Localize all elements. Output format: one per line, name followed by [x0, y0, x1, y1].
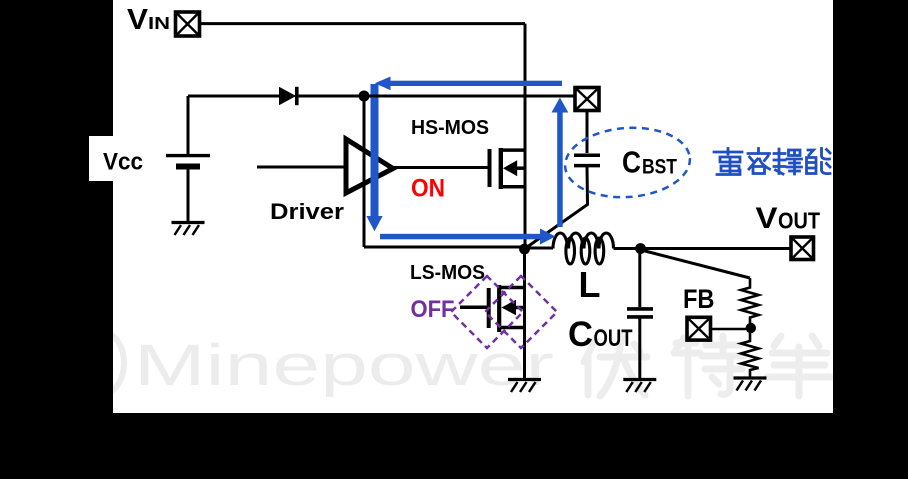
- node A (diode/driver supply junction): [359, 91, 370, 102]
- black frame on top of watermark: [0, 0, 113, 479]
- svg-text:BST: BST: [642, 156, 677, 179]
- wire node A down: [363, 96, 366, 247]
- Vcc label box: [89, 136, 150, 181]
- svg-text:L: L: [579, 264, 601, 305]
- annotation 電容釋能 (blue): [714, 149, 830, 175]
- wire node A through driver: [363, 96, 366, 247]
- wire VOUT node to divider: [643, 251, 750, 279]
- node FB: [746, 323, 756, 333]
- wire VIN top rail: [200, 22, 526, 25]
- svg-text:ON: ON: [411, 175, 445, 203]
- wire CBST to SW node: [525, 167, 588, 249]
- svg-text:FB: FB: [683, 284, 715, 314]
- blue arrow right up: [552, 98, 569, 228]
- capacitor C-OUT: [627, 309, 653, 317]
- ground (LS source): [508, 380, 541, 393]
- transistor Q2 LS-MOS: [489, 285, 525, 332]
- transistor Q1 HS-MOS: [490, 148, 526, 189]
- dashed ellipse highlight around CBST: [563, 124, 693, 202]
- wire driver output to HS gate: [391, 166, 488, 169]
- wire SW to LS drain / source to ground: [523, 249, 526, 378]
- battery V1 bottom plate: [176, 164, 200, 170]
- svg-text:HS-MOS: HS-MOS: [411, 117, 489, 139]
- svg-text:V: V: [756, 202, 778, 235]
- node SW: [519, 244, 530, 255]
- CBST label: [622, 145, 677, 180]
- svg-text:Minepower: Minepower: [134, 333, 554, 398]
- wire driver input: [257, 166, 346, 169]
- svg-text:V: V: [127, 4, 149, 36]
- battery V1 top plate: [166, 154, 210, 157]
- wire to VOUT terminal: [641, 247, 792, 250]
- wire COUT branch: [638, 249, 641, 308]
- COUT label: [568, 315, 633, 354]
- wire battery bottom to ground: [187, 170, 190, 222]
- wire bottom rail to SW: [364, 246, 525, 249]
- VOUT label: [756, 202, 821, 235]
- FB port terminal: [687, 317, 711, 340]
- dashed diamond left (OFF highlight): [451, 276, 523, 348]
- wire bootstrap rail redrawn over arrows: [188, 95, 575, 98]
- blue arrow bottom right: [380, 229, 556, 245]
- svg-text:Vcc: Vcc: [103, 149, 143, 176]
- svg-text:IN: IN: [148, 13, 170, 33]
- node A dot redrawn: [359, 91, 370, 102]
- resistor R2: [741, 333, 759, 377]
- blue arrow left down: [366, 84, 382, 231]
- VIN port terminal: [176, 12, 200, 36]
- svg-text:Driver: Driver: [270, 199, 344, 224]
- diode D1: [279, 87, 299, 105]
- wire diode to bootstrap terminal: [299, 95, 575, 98]
- resistor R1: [741, 278, 759, 323]
- wire BST terminal to CBST: [586, 111, 589, 154]
- svg-text:C: C: [622, 145, 641, 180]
- svg-text:OUT: OUT: [594, 325, 633, 352]
- wire VIN vertical to HS drain and SW: [524, 24, 527, 249]
- wire FB terminal to node: [711, 328, 747, 331]
- capacitor C-BST: [574, 155, 600, 165]
- svg-text:LS-MOS: LS-MOS: [410, 262, 485, 284]
- svg-text:C: C: [568, 315, 593, 354]
- ground (COUT): [623, 380, 656, 393]
- wire bootstrap rail (battery to diode): [188, 95, 279, 98]
- wire LS gate: [460, 306, 487, 310]
- wire battery top to bootstrap rail: [187, 96, 190, 154]
- VOUT port terminal: [791, 237, 814, 260]
- svg-text:OFF: OFF: [411, 296, 455, 323]
- bootstrap terminal BST: [575, 88, 599, 111]
- inductor L coil: [525, 233, 641, 264]
- ground (divider): [734, 378, 767, 391]
- node VOUT junction: [635, 243, 646, 254]
- WATERMARK: [84, 333, 554, 398]
- dashed diamond right (OFF highlight): [485, 276, 557, 348]
- op-amp U1 driver triangle: [346, 139, 393, 193]
- blue arrow top (current path): [375, 77, 562, 91]
- wire COUT to ground: [638, 319, 641, 378]
- svg-text:OUT: OUT: [778, 207, 820, 233]
- VIN label: [127, 4, 170, 36]
- ground (Vcc): [172, 223, 205, 236]
